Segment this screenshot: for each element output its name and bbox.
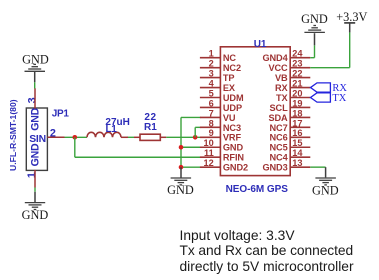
ground symbol top-left [25, 70, 46, 72]
svg-text:VCC: VCC [268, 63, 288, 73]
wire pin 24 GND4 to ground [310, 57, 314, 59]
svg-text:TX: TX [276, 93, 289, 103]
U1 pin 4 stub [200, 87, 221, 89]
svg-text:UDP: UDP [223, 103, 242, 113]
net flag TX [311, 93, 331, 102]
svg-text:U.FL-R-SMT-1(80): U.FL-R-SMT-1(80) [8, 99, 18, 171]
svg-text:GND3: GND3 [262, 163, 287, 173]
JP1 pin 1 stub [34, 170, 36, 188]
ground bus vertical [180, 117, 182, 167]
svg-text:18: 18 [292, 108, 302, 118]
svg-text:13: 13 [292, 158, 302, 168]
svg-text:NC3: NC3 [223, 123, 241, 133]
svg-text:GND: GND [223, 143, 244, 153]
svg-text:9: 9 [209, 128, 214, 138]
svg-text:NEO-6M GPS: NEO-6M GPS [226, 184, 289, 195]
L1 right lead [121, 136, 128, 138]
inductor L1 coil [87, 132, 121, 137]
IC U1 NEO-6M body [220, 47, 290, 176]
svg-text:VRF: VRF [223, 133, 242, 143]
junction at pin 10 [179, 145, 184, 150]
U1 pin 6 stub [200, 106, 221, 108]
ground pin top-right [314, 33, 316, 45]
junction at SIN node [73, 135, 78, 140]
svg-text:GND4: GND4 [262, 53, 288, 63]
svg-text:GND: GND [312, 183, 339, 197]
svg-text:GND2: GND2 [223, 163, 248, 173]
U1 pin 15 stub [290, 146, 310, 148]
svg-text:NC2: NC2 [223, 63, 241, 73]
ground symbol bottom-middle [171, 177, 192, 179]
wire VRF junction up to NC3 row [194, 127, 196, 137]
ground symbol bottom-right [315, 177, 336, 179]
U1 pin 22 stub [290, 77, 310, 79]
wire pin 7 VU [181, 116, 201, 118]
wire SIN net to L1 [65, 136, 88, 138]
svg-text:1: 1 [209, 49, 214, 59]
U1 pin 18 stub [290, 116, 310, 118]
wire up to +3.3V [349, 32, 351, 67]
svg-text:4: 4 [209, 78, 215, 88]
svg-text:TX: TX [332, 93, 346, 104]
svg-text:19: 19 [292, 98, 302, 108]
svg-text:24: 24 [292, 49, 303, 59]
svg-text:UDM: UDM [223, 93, 244, 103]
U1 pin 12 stub [200, 166, 221, 168]
svg-text:NC6: NC6 [270, 133, 288, 143]
svg-text:3: 3 [209, 69, 214, 79]
U1 pin 3 stub [200, 77, 221, 79]
svg-text:16: 16 [292, 128, 302, 138]
wire JP1 pin 1 to GND [34, 188, 36, 192]
connector JP1 body [26, 108, 47, 170]
svg-text:R1: R1 [144, 122, 157, 133]
svg-text:3: 3 [27, 97, 39, 103]
U1 pin 23 stub [290, 67, 310, 69]
wire pin 13 GND3 to ground [310, 166, 325, 168]
R1 right lead [160, 136, 166, 138]
svg-text:TP: TP [223, 73, 235, 83]
wire up to ground symbol [314, 45, 316, 57]
svg-text:JP1: JP1 [52, 109, 70, 120]
svg-text:22: 22 [292, 69, 302, 79]
svg-text:GND: GND [167, 183, 194, 197]
svg-text:20: 20 [292, 88, 302, 98]
svg-text:23: 23 [292, 59, 302, 69]
svg-text:NC4: NC4 [270, 153, 289, 163]
svg-text:11: 11 [204, 148, 214, 158]
svg-text:8: 8 [209, 118, 214, 128]
svg-text:NC5: NC5 [270, 143, 288, 153]
svg-text:12: 12 [203, 158, 213, 168]
U1 pin 1 stub [200, 57, 221, 59]
U1 pin 8 stub [200, 126, 221, 128]
note text block [180, 228, 354, 275]
U1 pin 16 stub [290, 136, 310, 138]
svg-text:14: 14 [292, 148, 303, 158]
svg-text:RFIN: RFIN [223, 153, 244, 163]
svg-text:RX: RX [275, 83, 289, 93]
wire pin 10 GND [181, 146, 201, 148]
JP1 pin 2 stub [47, 136, 64, 138]
U1 pin 19 stub [290, 106, 310, 108]
ground pin top-left [34, 72, 36, 82]
junction at pin 12 [179, 165, 184, 170]
wire L1 to R1 [128, 136, 134, 138]
svg-text:7: 7 [209, 108, 214, 118]
U1 pin 11 stub [200, 156, 221, 158]
svg-text:6: 6 [209, 98, 214, 108]
svg-text:GND: GND [30, 107, 42, 130]
svg-text:17: 17 [292, 118, 302, 128]
svg-text:GND: GND [22, 208, 49, 222]
wire to pin 8 NC3 [195, 126, 201, 128]
U1 pin 17 stub [290, 126, 310, 128]
svg-text:U1: U1 [254, 39, 267, 50]
U1 pin 24 stub [290, 57, 310, 59]
wire pin 12 GND2 [181, 166, 201, 168]
U1 pin 14 stub [290, 156, 310, 158]
svg-text:L1: L1 [106, 124, 118, 135]
ground symbol bottom-left [25, 202, 45, 204]
net flag RX [311, 83, 331, 92]
U1 pin 10 stub [200, 146, 221, 148]
+3.3V supply pin [349, 23, 351, 32]
wire R1 to pin 9 VRF [166, 136, 200, 138]
wire pin 23 VCC [310, 67, 349, 69]
R1 left lead [134, 136, 140, 138]
svg-text:NC7: NC7 [270, 123, 288, 133]
U1 pin 5 stub [200, 97, 221, 99]
resistor R1 body [140, 134, 160, 140]
svg-text:GND: GND [30, 143, 42, 166]
svg-text:2: 2 [209, 59, 214, 69]
svg-text:10: 10 [203, 138, 213, 148]
junction at VRF pin [193, 135, 198, 140]
svg-text:SCL: SCL [270, 103, 289, 113]
+3.3V supply symbol bar [344, 22, 355, 24]
wire GND to JP1 pin 3 [34, 82, 36, 88]
svg-text:SDA: SDA [268, 113, 288, 123]
svg-text:GND: GND [301, 12, 328, 26]
U1 pin 20 stub [290, 97, 310, 99]
svg-text:SIN: SIN [29, 134, 46, 145]
svg-text:+3.3V: +3.3V [336, 10, 367, 24]
ground pin bottom-right [325, 167, 327, 177]
wire SIN down to RFIN row [74, 137, 76, 157]
svg-text:15: 15 [292, 138, 302, 148]
svg-text:21: 21 [292, 78, 302, 88]
U1 pin 21 stub [290, 87, 310, 89]
U1 pin 2 stub [200, 67, 221, 69]
svg-text:VU: VU [223, 113, 236, 123]
JP1 pin 3 stub [34, 88, 36, 108]
ground pin bottom-left [34, 192, 36, 202]
svg-text:VB: VB [275, 73, 288, 83]
ground symbol top-right [304, 31, 325, 33]
svg-text:1: 1 [26, 172, 38, 178]
wire SIN to pin 11 RFIN [75, 156, 201, 158]
U1 pin 7 stub [200, 116, 221, 118]
svg-text:NC: NC [223, 53, 237, 63]
svg-text:EX: EX [223, 83, 236, 93]
svg-text:5: 5 [209, 88, 214, 98]
U1 pin 13 stub [290, 166, 310, 168]
ground pin bottom-middle [180, 167, 182, 177]
U1 pin 9 stub [200, 136, 221, 138]
